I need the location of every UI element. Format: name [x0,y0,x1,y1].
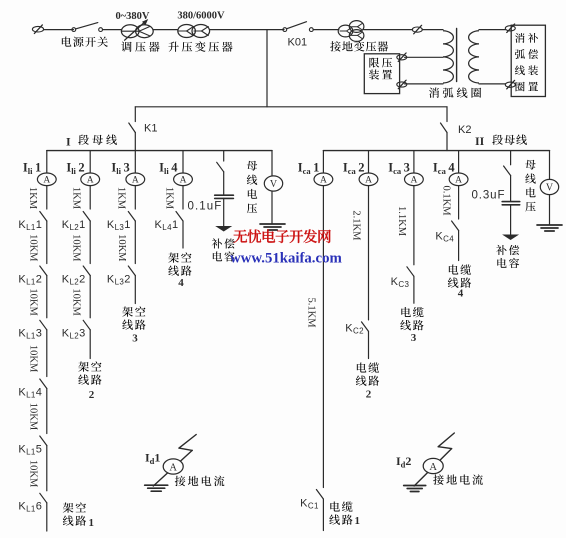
watermark www.51kaifa.com [230,251,342,267]
svg-text:KC3: KC3 [391,276,410,289]
ground arrow [215,226,232,232]
switch KC2 [345,322,368,336]
wire [134,151,136,173]
terminal [397,80,407,89]
wire [103,29,122,31]
ground arrow [502,235,519,241]
switch KC4 [435,221,458,244]
svg-text:1KM: 1KM [163,187,174,210]
label 电缆线路4 [448,264,471,299]
ground [260,224,285,230]
wire [313,29,339,31]
switch KC3 [391,267,414,289]
label 电缆线路1 [329,501,360,526]
voltage limiter box 限压装置 [364,54,399,94]
svg-text:1KM: 1KM [116,187,127,210]
svg-text:KL14: KL14 [18,386,42,399]
wire [458,151,460,173]
source terminal [32,25,43,34]
svg-text:Ica 3: Ica 3 [388,161,410,177]
wire [46,330,48,377]
wire [46,151,48,173]
wire [89,330,91,359]
ammeter Ili3 [126,173,145,186]
svg-text:0~380V: 0~380V [115,11,149,22]
svg-text:1KM: 1KM [71,187,82,210]
svg-text:KL32: KL32 [107,273,131,286]
svg-text:10KM: 10KM [27,234,38,262]
wire [479,29,506,31]
label Ili2 [66,161,84,177]
watermark 无忧电子开发网 [234,229,331,243]
terminal [505,80,515,89]
svg-text:Ili 3: Ili 3 [111,161,129,177]
voltmeter bus I 母线电压 [247,161,283,213]
wire [549,151,551,180]
ground current Id2 接地电流 [396,433,483,492]
svg-text:2: 2 [89,389,95,401]
wire [46,446,48,491]
svg-text:KC2: KC2 [345,322,364,335]
capacitor 0.3uF [472,189,520,205]
svg-text:Ili 1: Ili 1 [23,161,41,177]
svg-text:10KM: 10KM [71,288,82,316]
terminal [412,25,422,34]
svg-text:0.1KM: 0.1KM [441,185,452,216]
wire [89,221,91,264]
wire [223,172,225,195]
switch KC1 [300,490,323,511]
switch KL14 [18,379,46,399]
label 1KM [116,187,127,210]
svg-text:KL12: KL12 [18,273,42,286]
node bus I branch Ili1 [0,0,1,1]
svg-text:KL22: KL22 [62,273,86,286]
wire [413,276,415,303]
label 10KM [27,345,38,373]
svg-text:Ica 4: Ica 4 [433,161,455,177]
label 10KM [27,460,38,488]
wire [458,231,460,261]
switch K01 [283,22,313,49]
switch KL23 [62,320,90,340]
wire [368,331,370,358]
wire [322,186,324,488]
svg-text:4: 4 [178,277,184,289]
wire [510,205,512,235]
svg-text:A: A [455,176,462,186]
label 10KM [71,288,82,316]
wire [46,389,48,434]
switch KL32 [107,266,135,286]
wire [413,151,415,173]
wire [458,186,460,219]
label 10KM [71,234,82,262]
svg-text:2: 2 [366,389,372,401]
switch KL16 [18,493,46,513]
ammeter Ili2 [81,173,100,186]
switch KL11 [18,212,46,232]
node bus I branch Ili2 [0,0,1,1]
label 5.1KM [305,297,316,328]
svg-text:10KM: 10KM [27,288,38,316]
svg-text:A: A [365,176,372,186]
wire [368,186,370,320]
wire [46,503,48,531]
svg-text:0.3uF: 0.3uF [472,189,506,201]
wire [134,186,136,209]
svg-text:Id2: Id2 [396,454,411,470]
arc suppression coil right winding [469,31,479,83]
svg-text:A: A [320,176,327,186]
svg-text:KL21: KL21 [62,219,86,232]
wire middle tap [405,56,444,58]
switch K1 [129,107,158,151]
wire [46,186,48,209]
grounding transformer 接地变压器 [330,21,388,52]
switch K2 [441,107,472,151]
svg-text:Ili 2: Ili 2 [66,161,84,177]
switch KL13 [18,320,46,340]
wire [44,29,74,31]
label 电缆线路2 [356,362,379,400]
wire [368,151,370,173]
svg-text:1: 1 [355,515,361,527]
svg-text:5.1KM: 5.1KM [305,297,316,328]
arc suppression coil left winding [443,31,453,83]
svg-text:3: 3 [132,333,138,345]
svg-text:3: 3 [411,332,417,344]
wire [46,221,48,264]
label 1KM [71,187,82,210]
wire [322,499,324,531]
wire [182,221,184,248]
svg-text:10KM: 10KM [71,234,82,262]
svg-text:A: A [169,462,177,473]
label 架空线路1 [63,502,94,528]
switch compensation [217,162,224,172]
wire [89,151,91,173]
svg-text:10KM: 10KM [27,403,38,431]
node bus I branch Ili3 [0,0,1,1]
svg-text:Id1: Id1 [145,451,160,467]
wire [510,151,512,165]
wire [413,186,415,265]
ground [537,225,562,231]
svg-text:10KM: 10KM [27,460,38,488]
svg-text:KL15: KL15 [18,443,42,456]
ammeter Ica3 [405,173,424,186]
label Ica1 [298,161,320,177]
svg-text:K1: K1 [144,123,157,135]
label 1KM [163,187,174,210]
switch KL41 [155,212,183,232]
label 电缆线路3 [400,307,423,344]
wire [271,191,273,224]
wire [134,221,136,264]
switch KL31 [107,212,135,232]
wire [153,29,178,31]
wire trunk down [266,30,268,107]
wire link bus [135,106,447,108]
svg-text:V: V [270,179,278,190]
wire [46,276,48,318]
label Ili4 [159,161,178,177]
svg-text:A: A [132,176,139,186]
label Ica2 [343,161,365,177]
coil core [456,29,458,82]
label 架空线路2 [78,361,101,401]
svg-text:10KM: 10KM [116,234,127,262]
label 补偿电容 [496,245,519,268]
bus II 段母线 [323,134,549,151]
label 10KM [27,234,38,262]
svg-text:Ili 4: Ili 4 [159,161,178,177]
wire [271,151,273,177]
svg-text:www.51kaifa.com: www.51kaifa.com [230,251,342,267]
svg-text:KL31: KL31 [107,219,131,232]
terminal [397,53,407,62]
svg-text:1.1KM: 1.1KM [396,206,407,237]
svg-text:1: 1 [89,517,95,529]
svg-text:A: A [87,176,94,186]
switch KL22 [62,266,90,286]
label Ica3 [388,161,410,177]
label 10KM [27,403,38,431]
svg-text:380/6000V: 380/6000V [177,11,225,22]
wire [210,29,284,31]
label 架空线路3 [122,306,145,344]
svg-text:I: I [66,135,71,149]
label 1.1KM [396,206,407,237]
svg-text:A: A [429,462,437,473]
svg-text:KL16: KL16 [18,501,42,514]
svg-text:4: 4 [458,288,464,300]
switch KL21 [62,212,90,232]
wire [549,195,551,225]
wire [182,186,184,209]
svg-text:Ica 2: Ica 2 [343,161,365,177]
wire [422,29,443,31]
svg-text:II: II [475,134,485,148]
label Ica4 [433,161,455,177]
wire [89,276,91,318]
terminal [505,24,515,33]
svg-text:KL13: KL13 [18,328,42,341]
svg-text:K2: K2 [458,124,471,136]
label 1KM [27,187,38,210]
svg-text:KL23: KL23 [62,328,86,341]
wire [322,151,324,173]
svg-text:Ica 1: Ica 1 [298,161,320,177]
svg-text:KC1: KC1 [300,498,319,511]
wire [223,198,225,226]
svg-text:0.1uF: 0.1uF [188,201,223,213]
svg-text:A: A [410,176,417,186]
ground current Id1 接地电流 [145,435,225,492]
label Ili1 [23,161,41,177]
label 10KM [116,234,127,262]
power switch 电源开关 [62,23,108,47]
svg-text:KL41: KL41 [155,219,179,232]
wire [89,186,91,209]
svg-text:A: A [180,176,187,186]
wire [479,83,506,85]
compensation device box 消弧线圈补偿装置 [511,25,545,96]
svg-text:V: V [546,182,554,193]
capacitor 0.1uF [188,195,234,212]
wire [134,276,136,304]
label Ili3 [111,161,129,177]
switch KL15 [18,436,46,456]
svg-text:2.1KM: 2.1KM [350,210,361,241]
svg-text:KC4: KC4 [435,231,454,244]
wire [223,151,225,161]
regulator T1 调压器 0~380V [115,11,159,52]
svg-text:KL11: KL11 [18,219,42,232]
label 2.1KM [350,210,361,241]
ammeter Ili1 [37,173,56,186]
ammeter Ica1 [314,173,333,186]
voltmeter bus II 母线电压 [525,160,558,212]
ammeter Ica2 [359,173,378,186]
svg-text:A: A [43,176,50,186]
switch compensation [504,166,511,176]
svg-text:K01: K01 [288,37,308,49]
label 10KM [27,288,38,316]
wire bottom tap [405,83,444,85]
svg-text:10KM: 10KM [27,345,38,373]
label 消弧线圈 [429,87,481,97]
label 补偿电容 [212,238,235,261]
wire [364,29,413,31]
switch KL12 [18,266,46,286]
ammeter Ili4 [174,173,193,186]
label 架空线路4 [168,252,191,289]
step-up transformer 升压变压器 380/6000V [168,11,232,52]
label 0.1KM [441,185,452,216]
svg-text:1KM: 1KM [27,187,38,210]
wire [510,176,512,202]
ammeter Ica4 [449,173,468,186]
bus I 段母线 [47,134,272,150]
node bus I branch Ili4 [0,0,1,1]
wire [182,151,184,173]
